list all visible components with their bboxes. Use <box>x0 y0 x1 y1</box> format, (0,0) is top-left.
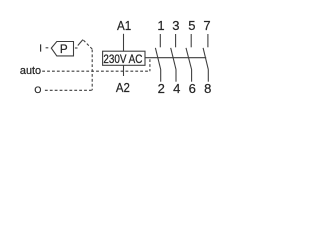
svg-text:I: I <box>39 43 42 54</box>
svg-text:5: 5 <box>188 18 195 33</box>
svg-text:4: 4 <box>173 81 180 96</box>
svg-text:auto: auto <box>20 65 41 77</box>
svg-text:A1: A1 <box>117 18 131 33</box>
svg-text:230V AC: 230V AC <box>103 52 142 66</box>
svg-text:P: P <box>60 43 68 56</box>
svg-text:3: 3 <box>172 18 179 33</box>
svg-text:A2: A2 <box>116 80 130 95</box>
svg-text:O: O <box>34 85 41 95</box>
svg-text:2: 2 <box>158 81 165 96</box>
svg-text:8: 8 <box>204 81 211 96</box>
svg-text:1: 1 <box>157 18 164 33</box>
svg-text:6: 6 <box>189 81 196 96</box>
svg-text:7: 7 <box>203 18 210 33</box>
